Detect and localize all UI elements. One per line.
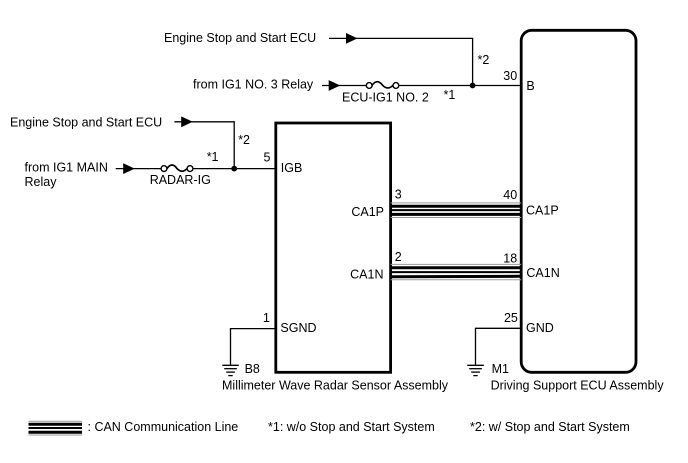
svg-text:CA1P: CA1P bbox=[351, 205, 384, 219]
wire: radar sensor pin 1 SGND to ground B8 bbox=[231, 329, 276, 365]
wire: top Engine Stop and Start ECU branch, right then down to pin-30 net bbox=[329, 38, 473, 85]
svg-text:5: 5 bbox=[263, 150, 270, 164]
svg-text:2: 2 bbox=[395, 250, 402, 264]
svg-text:18: 18 bbox=[503, 251, 517, 265]
junction: node of mid *2 branch with IGB wire bbox=[231, 166, 237, 172]
svg-text:CA1N: CA1N bbox=[526, 266, 559, 280]
svg-text:ECU-IG1 NO. 2: ECU-IG1 NO. 2 bbox=[342, 91, 429, 105]
junction: node of *2 branch with pin 30 wire bbox=[470, 83, 476, 89]
svg-text:Relay: Relay bbox=[25, 175, 58, 189]
svg-text:3: 3 bbox=[395, 187, 402, 201]
svg-text:RADAR-IG: RADAR-IG bbox=[150, 173, 211, 187]
arrow: Engine Stop and Start ECU (top) feed direction bbox=[346, 33, 358, 44]
svg-text:40: 40 bbox=[503, 188, 517, 202]
fuse ECU-IG1 NO. 2 bbox=[366, 82, 398, 89]
ground M1 bbox=[467, 365, 484, 375]
wire: mid Engine Stop and Start ECU branch, right then down to IGB net bbox=[174, 122, 234, 169]
svg-text:GND: GND bbox=[526, 321, 554, 335]
svg-text:: CAN Communication Line: : CAN Communication Line bbox=[88, 420, 239, 434]
legend: CAN communication line symbol bbox=[29, 421, 83, 435]
svg-text:*2: *2 bbox=[478, 53, 490, 67]
ground B8 bbox=[222, 365, 239, 375]
svg-text:SGND: SGND bbox=[280, 321, 316, 335]
svg-text:25: 25 bbox=[504, 311, 518, 325]
arrow: from IG1 MAIN Relay feed direction bbox=[123, 163, 135, 174]
box U2: Driving Support ECU Assembly bbox=[521, 30, 636, 372]
svg-text:Driving Support ECU Assembly: Driving Support ECU Assembly bbox=[491, 379, 665, 393]
svg-text:CA1P: CA1P bbox=[526, 203, 559, 217]
svg-text:*2: w/ Stop and Start System: *2: w/ Stop and Start System bbox=[470, 420, 630, 434]
svg-text:B8: B8 bbox=[245, 362, 260, 376]
wire: Driving Support ECU pin 25 GND to ground M1 bbox=[476, 328, 522, 364]
CAN bus CA1P: pins 3 to 40 bbox=[391, 203, 522, 218]
svg-text:Millimeter Wave Radar Sensor A: Millimeter Wave Radar Sensor Assembly bbox=[222, 379, 449, 393]
wire: fuse RADAR-IG to radar sensor pin 5 IGB bbox=[193, 168, 276, 170]
svg-text:Engine Stop and Start ECU: Engine Stop and Start ECU bbox=[164, 31, 316, 45]
wire: from IG1 MAIN Relay to fuse RADAR-IG bbox=[116, 168, 161, 170]
box U1: Millimeter Wave Radar Sensor Assembly bbox=[276, 123, 391, 372]
svg-text:30: 30 bbox=[503, 69, 517, 83]
svg-text:M1: M1 bbox=[492, 362, 509, 376]
svg-text:Engine Stop and Start ECU: Engine Stop and Start ECU bbox=[10, 115, 162, 129]
svg-text:from IG1 MAIN: from IG1 MAIN bbox=[25, 161, 108, 175]
svg-text:from IG1 NO. 3 Relay: from IG1 NO. 3 Relay bbox=[193, 78, 314, 92]
svg-text:*1: *1 bbox=[444, 88, 456, 102]
svg-text:*1: *1 bbox=[207, 150, 219, 164]
arrow: Engine Stop and Start ECU (mid) feed direction bbox=[181, 116, 193, 127]
wire: fuse ECU-IG1 NO. 2 to Driving Support ECU pin 30 bbox=[399, 85, 521, 87]
svg-text:1: 1 bbox=[263, 311, 270, 325]
svg-text:IGB: IGB bbox=[281, 161, 303, 175]
svg-text:CA1N: CA1N bbox=[350, 267, 383, 281]
svg-text:*2: *2 bbox=[238, 133, 250, 147]
svg-text:*1: w/o Stop and Start System: *1: w/o Stop and Start System bbox=[268, 420, 435, 434]
arrow: from IG1 NO. 3 Relay feed direction bbox=[329, 80, 341, 91]
fuse RADAR-IG bbox=[161, 165, 193, 172]
wire: from IG1 NO. 3 Relay to fuse ECU-IG1 NO. 2 bbox=[322, 85, 366, 87]
svg-text:B: B bbox=[526, 79, 534, 93]
CAN bus CA1N: pins 2 to 18 bbox=[391, 264, 522, 279]
